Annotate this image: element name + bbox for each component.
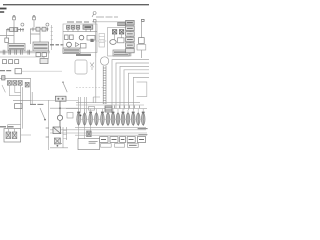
title text line 2 — [0, 11, 4, 13]
solenoid SV2 — [119, 30, 123, 34]
lever unit — [2, 76, 5, 80]
muffler bar — [76, 54, 91, 56]
wire — [141, 21, 143, 37]
control valve CV2 — [13, 81, 17, 86]
tank T1 — [78, 139, 100, 150]
spool S3 — [89, 112, 93, 126]
wire — [44, 50, 49, 59]
bus wire low — [0, 56, 44, 58]
hose diagonal — [40, 108, 45, 119]
aux pump box — [53, 127, 61, 134]
wire — [31, 29, 41, 44]
solenoid SV1 — [112, 30, 116, 34]
wire — [85, 97, 87, 113]
valve block VB1 — [8, 44, 25, 52]
pilot valve PV1 top row — [6, 28, 24, 32]
wire — [129, 28, 131, 57]
bank rail 3 — [66, 108, 147, 110]
dotted section line — [76, 87, 104, 89]
spool S5 — [101, 112, 105, 126]
junction dot bank — [79, 114, 81, 116]
port text marks — [101, 139, 144, 141]
wire — [99, 37, 105, 43]
spool S13 — [141, 112, 145, 126]
junction box — [118, 38, 124, 43]
spool S1 — [77, 112, 81, 126]
top border rule — [3, 4, 149, 5]
hose arrow — [63, 83, 67, 93]
pilot dashed link — [93, 40, 108, 42]
wire — [95, 22, 97, 58]
wire — [63, 127, 67, 148]
bank top rail — [76, 102, 140, 104]
side plate — [99, 34, 105, 48]
junction dot — [57, 145, 59, 147]
control valve CV4 — [25, 82, 29, 87]
label text pilot line — [0, 70, 11, 72]
control box — [81, 43, 87, 48]
port label box 4 — [127, 137, 135, 143]
sub note box B — [115, 144, 125, 148]
drain diagonal — [2, 85, 5, 92]
spool S10 — [126, 112, 130, 126]
title text line 1 — [0, 8, 7, 10]
wire — [8, 129, 31, 135]
wire — [9, 85, 20, 95]
pump P2 circle — [67, 42, 72, 47]
left bus wires — [0, 51, 50, 53]
bank bottom rail 3 — [50, 132, 147, 134]
spool drains — [79, 125, 91, 138]
nested wire 6 — [133, 77, 149, 110]
label text travel motor — [50, 44, 64, 46]
coupler ticks — [3, 50, 29, 55]
bottom text small — [56, 143, 62, 145]
callout balloon b1 — [21, 23, 24, 26]
junction plate — [75, 60, 87, 74]
wire — [0, 30, 14, 44]
inlet block — [105, 106, 112, 112]
nested wire 2 — [116, 63, 149, 109]
node A solenoid stem — [13, 15, 16, 19]
wire — [115, 34, 122, 40]
accumulator stack column — [126, 20, 135, 52]
port label box 3 — [120, 137, 126, 143]
port label box 5 — [137, 137, 145, 143]
hose fork — [90, 63, 94, 71]
bank rail 2 — [76, 104, 144, 106]
aux valve — [54, 138, 60, 144]
bottom wire — [50, 147, 68, 149]
bank bottom rail 1 — [75, 127, 146, 129]
valve block VB2 — [33, 42, 49, 51]
solenoid bank top of U1 — [67, 25, 93, 29]
wire — [33, 20, 35, 28]
relief valve R2 — [70, 35, 74, 40]
pilot filter box — [15, 69, 22, 74]
nested wire 5 — [128, 73, 149, 110]
cooler box — [137, 45, 146, 50]
node B solenoid stem — [33, 15, 36, 19]
nested wire 4 — [124, 70, 149, 110]
note text right 1 — [138, 128, 148, 130]
wire — [50, 107, 79, 109]
motor M1 ellipse — [110, 40, 116, 45]
bank mid rail — [76, 119, 145, 121]
spool S9 — [121, 112, 125, 126]
spool caps — [77, 112, 144, 114]
bus wire — [63, 29, 97, 31]
wire — [22, 70, 63, 72]
callout balloon b3 — [92, 12, 96, 18]
striped manifold under U1 — [63, 48, 80, 54]
wire — [8, 125, 21, 129]
wire — [21, 85, 23, 128]
hose rungs — [63, 131, 67, 139]
unit top label text — [67, 21, 89, 23]
long rail upper — [31, 100, 78, 102]
nested wire 3 — [120, 66, 149, 109]
remote control bus — [0, 77, 31, 79]
text row — [30, 103, 43, 105]
spool S7 — [111, 112, 115, 126]
junction dot — [62, 81, 64, 83]
port label box 1 — [100, 137, 108, 143]
tank text — [89, 141, 98, 143]
gear pump circle — [57, 101, 62, 126]
note text right 2 — [138, 134, 147, 136]
bank bottom rail 2 — [50, 129, 146, 131]
pump unit U1 enclosure — [63, 24, 97, 53]
spool S12 — [136, 112, 140, 126]
hose ladder — [103, 66, 106, 104]
connector row box 3 — [15, 60, 19, 64]
spool S8 — [116, 112, 120, 126]
terminal cluster — [118, 22, 126, 25]
link tap dark — [90, 39, 93, 42]
top link wire — [92, 21, 128, 23]
check valve marks — [76, 43, 80, 47]
stack marks — [127, 23, 133, 45]
wire — [93, 58, 100, 103]
sub note box A — [101, 144, 112, 148]
control valve CV1 — [7, 81, 11, 86]
wire — [31, 78, 33, 104]
wire — [79, 97, 81, 113]
swivel joint box — [55, 96, 66, 101]
gauge tap box — [89, 107, 95, 111]
junction dot — [44, 119, 46, 121]
wire — [141, 50, 143, 58]
spool risers — [79, 109, 144, 114]
junction header — [13, 100, 31, 102]
bottom note boxes — [128, 143, 139, 147]
connector row box 2 — [9, 60, 13, 64]
top note text — [96, 16, 118, 18]
connector row box 1 — [3, 60, 7, 64]
drain valve dark — [87, 131, 92, 137]
valve stand U2 enclosure — [108, 28, 132, 57]
spool S4 — [95, 112, 99, 126]
pilot valve PV2 top row — [30, 27, 49, 31]
corner flag — [93, 20, 96, 22]
travel motor right — [12, 132, 17, 139]
bottom note text — [129, 144, 137, 146]
pump gauge circle — [100, 57, 108, 65]
pilot manifold box — [15, 104, 22, 109]
travel motor left — [6, 132, 11, 139]
return corner wire — [137, 82, 147, 97]
spool S6 — [106, 112, 110, 126]
drop rail — [48, 100, 50, 150]
wire — [13, 20, 15, 28]
pump P1 circle — [79, 35, 84, 40]
striped manifold under U2 — [113, 50, 129, 56]
solenoid dots — [67, 26, 91, 28]
bank bottom rail 4 — [75, 134, 147, 136]
junction dot — [59, 107, 61, 109]
bottom left block text — [0, 126, 14, 128]
control valve CV3 — [18, 81, 22, 86]
travel unit block — [4, 129, 21, 142]
relief valve R1 — [65, 35, 69, 40]
filter F1 — [139, 38, 145, 44]
breather flag — [142, 19, 145, 21]
regulator box — [87, 35, 95, 40]
relief box — [67, 113, 73, 119]
gauge box G1 — [5, 38, 9, 42]
callout balloon b2 — [46, 23, 49, 26]
tick rail — [51, 25, 53, 50]
port label box 2 — [110, 137, 118, 143]
rail ticks — [46, 128, 49, 137]
spool S11 — [131, 112, 135, 126]
spring marks row — [115, 106, 140, 109]
spool S2 — [83, 112, 87, 126]
nested wire 1 — [112, 60, 149, 108]
shuttle valve pair — [36, 52, 48, 63]
